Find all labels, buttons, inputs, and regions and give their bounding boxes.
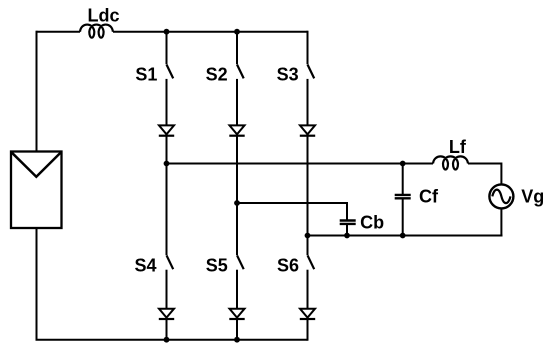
junction dot Cf bottom <box>400 233 406 239</box>
junction dot top bus leg1 <box>164 29 170 35</box>
junction dot phase B leg2 <box>234 200 240 206</box>
svg-text:S2: S2 <box>206 64 228 84</box>
svg-text:Vg: Vg <box>521 186 544 206</box>
diode D4 <box>159 309 174 340</box>
switch S6 <box>308 255 315 269</box>
svg-text:S5: S5 <box>206 256 228 276</box>
wire leg1 switch to diode <box>166 79 168 125</box>
wire leg3 S6 to diode <box>307 270 309 309</box>
junction dot top bus leg2 <box>234 29 240 35</box>
svg-text:S3: S3 <box>277 64 299 84</box>
junction dot bottom bus leg1 <box>164 337 170 343</box>
PV source panel <box>11 152 62 229</box>
wire mid bus phase A <box>167 163 434 165</box>
wire bottom bus <box>36 339 308 341</box>
wire top bus left segment <box>37 31 81 33</box>
wire leg1 upper lead <box>166 32 168 64</box>
wire leg2 mid to S5 <box>236 203 238 255</box>
switch S3 <box>308 65 315 79</box>
junction dot bottom bus leg2 <box>234 337 240 343</box>
wire Vg bottom to bus <box>500 209 502 236</box>
svg-text:S4: S4 <box>134 256 156 276</box>
diode D2 <box>229 125 244 203</box>
wire Cf top lead <box>402 164 404 195</box>
wire leg2 upper lead <box>236 32 238 64</box>
wire left vertical lower <box>36 228 38 340</box>
wire bottom filter bus <box>308 235 503 237</box>
wire leg3 switch to diode <box>307 79 309 125</box>
svg-text:S6: S6 <box>277 256 299 276</box>
wire left vertical upper <box>36 31 38 152</box>
wire leg2 switch to diode <box>236 79 238 125</box>
switch S1 <box>167 65 174 79</box>
diode D5 <box>229 309 244 340</box>
inductor Ldc <box>80 25 113 38</box>
wire leg1 mid to S4 <box>166 164 168 256</box>
junction dot phase C leg3 <box>305 233 311 239</box>
wire leg3 mid to S6 <box>307 236 309 256</box>
switch S2 <box>237 65 244 79</box>
capacitor Cb <box>340 221 356 236</box>
wire top bus right segment <box>113 31 308 33</box>
diode D3 <box>300 125 315 235</box>
svg-text:Ldc: Ldc <box>87 6 119 26</box>
svg-text:Cb: Cb <box>360 213 384 233</box>
switch S5 <box>237 255 244 269</box>
switch S4 <box>167 255 174 269</box>
wire leg3 upper lead <box>307 31 309 64</box>
AC source Vg <box>489 184 513 208</box>
diode D6 <box>300 309 315 341</box>
wire leg1 S4 to diode <box>166 270 168 309</box>
wire Lf to corner <box>468 164 501 185</box>
wire leg2 S5 to diode <box>236 270 238 309</box>
capacitor Cf <box>395 195 411 236</box>
diode D1 <box>159 125 174 163</box>
svg-text:Cf: Cf <box>419 187 439 207</box>
svg-text:S1: S1 <box>135 64 157 84</box>
svg-text:Lf: Lf <box>449 137 467 157</box>
junction dot phase A leg1 <box>164 161 170 167</box>
junction dot Cb bottom <box>344 233 350 239</box>
wire phase B bus <box>237 203 347 220</box>
junction dot Cf top <box>400 161 406 167</box>
inductor Lf <box>433 156 468 169</box>
